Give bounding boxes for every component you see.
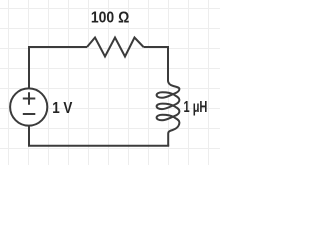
inductor L1 1 uH coil with vertical leads <box>157 46 180 146</box>
svg-text:100 Ω: 100 Ω <box>91 10 129 27</box>
wire: left vertical segment, bottom-left corner to voltage source bottom <box>28 126 30 146</box>
resistor R1 100 ohm zigzag <box>87 38 144 57</box>
wire: top horizontal segment, resistor to top-right corner <box>144 46 170 48</box>
grid background <box>0 0 220 165</box>
wire: left vertical segment, voltage source top to top-left corner <box>28 46 30 88</box>
wire: bottom horizontal segment, inductor bottom to bottom-left corner <box>28 145 169 147</box>
svg-text:1 μH: 1 μH <box>184 99 208 116</box>
svg-text:1 V: 1 V <box>52 100 73 117</box>
voltage source V1 1 V circle <box>10 88 47 125</box>
wire: top horizontal segment, top-left corner to resistor <box>28 46 87 48</box>
minus sign of source V1 <box>23 113 36 115</box>
plus sign of source V1 <box>23 92 36 104</box>
